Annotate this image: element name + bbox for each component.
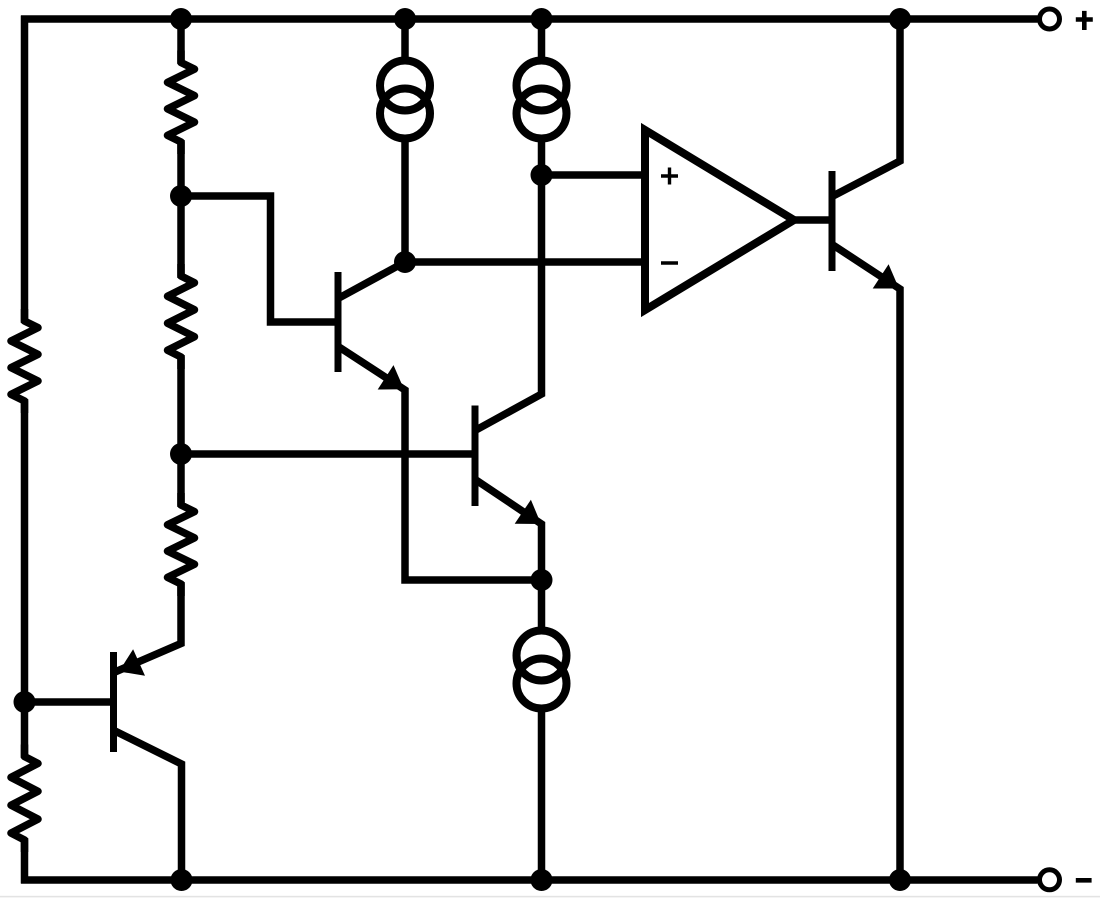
wire left rail middle — [21, 399, 29, 758]
op-amp U1 plus label — [661, 168, 678, 185]
transistor Q4 emitter arrow — [873, 264, 899, 288]
current source I2 circle 2 — [517, 89, 567, 139]
resistor R5 — [11, 745, 38, 853]
current source I3 circle 1 — [517, 631, 567, 681]
wire left rail upper — [21, 16, 29, 324]
current source I2 circle 1 — [517, 61, 567, 111]
wire bottom rail — [21, 876, 1038, 884]
wire Q3 base — [25, 698, 111, 706]
junction node D — [531, 164, 553, 186]
wire top rail to I1 — [401, 19, 409, 60]
current source I3 circle 2 — [517, 659, 567, 709]
faint bottom edge artifact — [0, 896, 1100, 898]
terminal + label — [1076, 11, 1093, 30]
resistor R2 — [168, 264, 195, 369]
wire left rail lower — [21, 838, 29, 884]
junction node bottom-181 — [171, 869, 193, 891]
transistor Q2 emitter — [476, 480, 542, 580]
wire I3 to bottom rail — [538, 709, 546, 880]
transistor Q4 base bar — [829, 171, 836, 271]
junction node bottom-900 — [889, 869, 911, 891]
wire R2 to node B — [177, 355, 185, 454]
wire top rail — [21, 15, 1038, 23]
junction node top-181 — [170, 8, 192, 30]
transistor Q1 collector — [339, 262, 405, 298]
current source I1 circle 1 — [380, 61, 430, 111]
junction node Q3 base — [14, 691, 36, 713]
wire I1 to node C — [401, 141, 409, 262]
wire top rail to I2 — [538, 19, 546, 60]
transistor Q2 collector — [476, 175, 542, 430]
junction node C — [394, 251, 416, 273]
wire node B to R3 — [177, 454, 185, 507]
wire R3 to Q3 emitter — [115, 582, 181, 672]
transistor Q1 emitter — [339, 347, 542, 580]
terminal - circle — [1040, 870, 1060, 890]
junction node top-900 — [889, 8, 911, 30]
wire Q2 base — [181, 450, 472, 458]
resistor R1 — [168, 51, 195, 155]
transistor Q3 collector — [115, 731, 182, 880]
transistor Q2 emitter arrow — [515, 500, 541, 524]
transistor Q1 emitter arrow — [378, 365, 404, 389]
op-amp U1 minus label — [661, 261, 678, 264]
transistor Q4 collector — [833, 19, 900, 196]
transistor Q3 base bar — [110, 652, 117, 752]
wire node E to I3 — [538, 580, 546, 630]
transistor Q1 base bar — [335, 272, 342, 372]
wire inverting input — [405, 258, 646, 266]
junction node top-541 — [531, 8, 553, 30]
wire R1 to node A — [177, 140, 185, 196]
terminal - label — [1076, 878, 1092, 883]
junction node B — [170, 443, 192, 465]
terminal + circle — [1040, 9, 1060, 29]
wire node A to R2 — [177, 196, 185, 278]
transistor Q4 emitter — [833, 245, 900, 880]
wire op-amp output — [794, 216, 833, 224]
junction node A — [170, 185, 192, 207]
transistor Q3 emitter arrow — [119, 649, 145, 676]
resistor R3 — [168, 493, 195, 596]
wire Q1 base L-path — [181, 196, 336, 322]
transistor Q2 base bar — [472, 406, 479, 507]
current source I1 circle 2 — [380, 89, 430, 139]
junction node top-405 — [394, 8, 416, 30]
op-amp U1 triangle — [645, 130, 794, 310]
wire from top rail to R1 — [177, 19, 185, 64]
resistor R4 — [11, 309, 38, 413]
wire I2 to node D — [538, 141, 546, 175]
junction node E — [531, 569, 553, 591]
wire noninverting input — [542, 171, 647, 179]
junction node bottom-541 — [531, 869, 553, 891]
